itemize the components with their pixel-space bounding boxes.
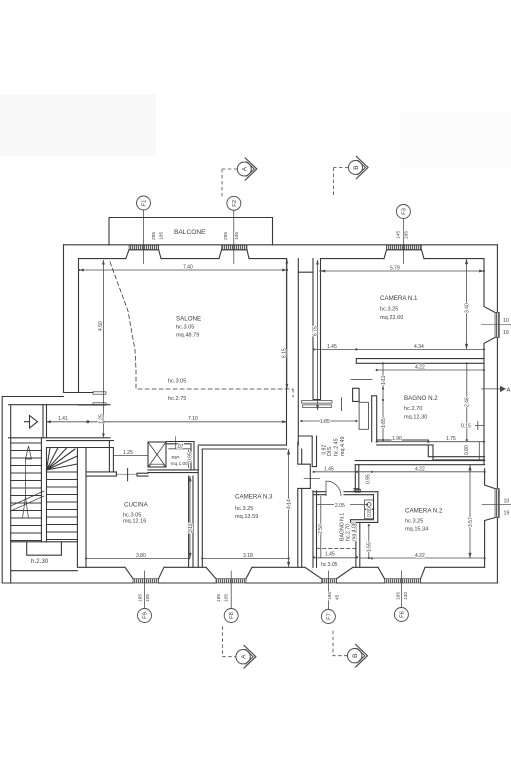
wall bottom exterior outer line segments [2, 582, 497, 584]
svg-text:3.40: 3.40 [464, 303, 470, 313]
dim .07 line [168, 448, 191, 450]
svg-text:mq.13.59: mq.13.59 [235, 514, 258, 520]
dim 2.46 line [466, 363, 468, 440]
svg-text:105: 105 [234, 232, 240, 240]
dim 1.90+1.75 line [377, 441, 484, 443]
svg-text:0.80: 0.80 [464, 445, 470, 455]
window F2 hatch [222, 245, 248, 250]
svg-text:0.92: 0.92 [322, 445, 328, 455]
svg-text:hc.2.75: hc.2.75 [168, 396, 186, 402]
svg-text:0.80: 0.80 [367, 507, 373, 517]
window F6 stem [400, 571, 402, 607]
svg-text:BALCONE: BALCONE [174, 229, 206, 236]
wall left exterior [63, 245, 65, 393]
svg-text:45: 45 [335, 594, 341, 600]
svg-text:295: 295 [223, 232, 229, 240]
bagno N1 bidet fixture [365, 510, 374, 519]
window F6 reveals [378, 567, 425, 578]
section marker B bottom [333, 631, 367, 668]
window F9 stem [144, 571, 146, 608]
svg-text:195: 195 [138, 594, 144, 602]
dim 4.50 line [102, 260, 104, 438]
svg-text:mq.15.34: mq.15.34 [405, 527, 428, 533]
svg-text:10: 10 [503, 318, 509, 324]
bagno N1 dashed shower line [317, 548, 357, 550]
svg-text:1.85: 1.85 [320, 419, 330, 425]
entry wall jog [64, 393, 94, 406]
window F2 reveals [219, 250, 249, 259]
camera N3 top wall [198, 445, 286, 449]
dim 1.45+4.34 line [314, 348, 484, 350]
camera N2 top wall [355, 461, 484, 465]
wall top interior inner line segments [79, 258, 485, 260]
svg-text:4.50: 4.50 [98, 321, 104, 331]
camera N1 left wall [313, 259, 321, 400]
svg-text:F2: F2 [232, 200, 238, 207]
stair top wall [47, 441, 114, 448]
dim 5.79 line [321, 270, 485, 272]
corridor wall right of stair [109, 441, 113, 472]
svg-text:4.34: 4.34 [414, 344, 424, 350]
shaft cap between walls [298, 271, 313, 273]
svg-text:hc.3.05: hc.3.05 [168, 378, 186, 384]
dim 0.80 line [478, 442, 480, 460]
svg-text:A: A [240, 654, 247, 659]
svg-text:F1: F1 [142, 200, 148, 207]
svg-text:CAMERA N.1: CAMERA N.1 [380, 295, 418, 302]
svg-text:F3: F3 [401, 208, 407, 215]
svg-text:F8: F8 [229, 612, 235, 619]
svg-text:195: 195 [396, 592, 402, 600]
dim 0.15 line [475, 421, 485, 430]
svg-text:F9: F9 [143, 612, 149, 619]
dim dots [86, 420, 89, 423]
entry direction triangle [25, 416, 38, 429]
svg-text:CUCINA: CUCINA [124, 502, 149, 509]
elevator door sill [150, 464, 164, 467]
svg-text:B: B [352, 653, 359, 658]
svg-text:CAMERA N.3: CAMERA N.3 [235, 493, 273, 500]
svg-text:1.85: 1.85 [381, 418, 387, 428]
dim 1.85 DIS line [302, 420, 357, 422]
stair up arrow 1 [26, 446, 32, 459]
circle F7 [321, 610, 335, 624]
svg-text:hc.3.25: hc.3.25 [380, 306, 398, 312]
svg-text:1.41: 1.41 [58, 416, 68, 422]
svg-text:130: 130 [403, 592, 409, 600]
window F1 hatch [129, 245, 159, 250]
svg-text:RIP.: RIP. [172, 455, 181, 461]
svg-text:mq.12.30: mq.12.30 [404, 414, 427, 420]
svg-text:2.50: 2.50 [318, 524, 324, 534]
elevator shaft [148, 442, 166, 467]
svg-text:195: 195 [327, 592, 333, 600]
stair block outer boundary [2, 397, 63, 584]
wall left interior [78, 259, 80, 393]
svg-text:mq.48.79: mq.48.79 [176, 333, 199, 339]
window right of camera N1 hatch [495, 312, 499, 337]
window F2 stem [233, 210, 235, 264]
bagno N1 wc fixture [365, 500, 374, 509]
svg-text:10: 10 [504, 499, 510, 505]
window F7 stem [327, 571, 329, 609]
svg-text:1.45: 1.45 [327, 344, 337, 350]
dim 4.22 bagno2 line [377, 369, 484, 371]
svg-text:6.75: 6.75 [313, 326, 319, 336]
dim 3.80 line [86, 557, 189, 559]
window F7 reveals [305, 567, 353, 578]
dim 7.40 line [79, 269, 287, 271]
svg-text:mq.12.16: mq.12.16 [123, 519, 146, 525]
svg-text:1.25: 1.25 [123, 450, 133, 456]
landing top wall [9, 404, 110, 406]
svg-text:3.57: 3.57 [468, 517, 474, 527]
corridor east wall by camera N2 door [354, 465, 359, 491]
svg-text:145: 145 [396, 231, 402, 239]
kitchen right wall [189, 476, 193, 567]
section marker A top [222, 158, 257, 199]
svg-text:hc.3.05: hc.3.05 [176, 325, 194, 331]
landing bottom line [9, 437, 110, 439]
window F3 hatch [387, 245, 422, 250]
circle F9 [138, 609, 152, 623]
dim .07 stem [175, 437, 177, 449]
section arrow A right side [481, 386, 510, 394]
kitchen door tick and threshold [127, 469, 129, 481]
dim 4.22 camera N2 bottom line [360, 557, 485, 559]
svg-text:0.95: 0.95 [187, 452, 193, 462]
svg-text:mq.22.60: mq.22.60 [380, 315, 403, 321]
svg-text:195: 195 [404, 231, 410, 239]
window F7 hatch [322, 579, 337, 583]
svg-text:105: 105 [159, 232, 165, 240]
fixture niche walls [351, 492, 378, 523]
stair bottom landing lines [11, 542, 78, 555]
sliding door threshold bars salone-DIS [302, 401, 333, 404]
window F8 hatch [216, 579, 246, 583]
svg-text:hc.3.05: hc.3.05 [321, 562, 338, 568]
stair up arrow 2 [23, 459, 29, 518]
stair winder treads [47, 448, 78, 471]
svg-text:1.25: 1.25 [98, 414, 104, 424]
svg-text:h.2.30: h.2.30 [31, 558, 49, 565]
bagno N1 door leaf [326, 481, 341, 496]
svg-text:295: 295 [151, 232, 157, 240]
svg-text:0.15: 0.15 [461, 423, 471, 429]
window F8 reveals [206, 567, 252, 578]
camera N3 door swing line [304, 477, 320, 479]
svg-text:19: 19 [504, 511, 510, 517]
svg-text:mq.4.49: mq.4.49 [340, 437, 346, 456]
svg-text:DIS.: DIS. [327, 446, 333, 456]
svg-text:BAGNO N.2: BAGNO N.2 [404, 395, 438, 402]
camera N3 right wall [298, 442, 311, 567]
svg-text:SALONE: SALONE [176, 316, 201, 323]
svg-text:4.14: 4.14 [287, 499, 293, 509]
svg-text:F7: F7 [326, 613, 332, 620]
camera N3 left wall [198, 446, 202, 567]
DIS east jog wall [353, 388, 360, 401]
kitchen top wall [86, 472, 148, 476]
svg-text:mq.4.08: mq.4.08 [352, 522, 358, 541]
dim 0.95 rip line [188, 450, 190, 468]
svg-text:CAMERA N.2: CAMERA N.2 [405, 507, 443, 514]
dim 3.40 line [466, 259, 468, 350]
balcony outline [109, 218, 273, 246]
svg-text:A: A [507, 387, 511, 393]
landing divider wall [43, 405, 47, 438]
svg-text:0.95: 0.95 [365, 474, 371, 484]
svg-text:F6: F6 [399, 611, 405, 618]
salone right wall [287, 259, 299, 446]
bagno N2 bottom wall step [377, 440, 485, 460]
stair left flight treads [11, 443, 42, 541]
svg-text:5.79: 5.79 [390, 266, 400, 272]
window right of camera N2 hatch [495, 489, 499, 518]
svg-text:1.11: 1.11 [381, 375, 387, 385]
window F6 hatch [385, 579, 421, 583]
bagno N1 top wall [313, 492, 378, 495]
svg-text:hc.3.25: hc.3.25 [405, 518, 423, 524]
dashed ceiling-height boundary in salone [110, 262, 293, 397]
svg-text:3.18: 3.18 [243, 553, 253, 559]
closet RIP walls [148, 442, 198, 473]
circle F1 [137, 196, 151, 210]
dim 6.75 line [317, 260, 319, 410]
svg-text:.07: .07 [177, 444, 184, 450]
svg-text:2.05: 2.05 [335, 503, 345, 509]
svg-text:hc.3.25: hc.3.25 [235, 506, 253, 512]
dim 6.15 line [286, 259, 288, 389]
svg-text:4.22: 4.22 [415, 553, 425, 559]
faint scan shadow left [0, 94, 156, 156]
faint scan shadow right [400, 112, 511, 168]
dim 3.16 line [189, 476, 191, 558]
dim corridor y472 line [314, 471, 485, 473]
svg-text:3.80: 3.80 [136, 553, 146, 559]
svg-text:hc.2.45: hc.2.45 [334, 438, 340, 456]
svg-text:105: 105 [145, 594, 151, 602]
kitchen left wall (shared with stair) [77, 448, 86, 568]
svg-text:105: 105 [224, 594, 230, 602]
dim 1.45 bagno N1 bottom line [314, 557, 358, 559]
svg-text:mq.1.00: mq.1.00 [171, 461, 189, 467]
svg-text:19: 19 [503, 330, 509, 336]
svg-text:195: 195 [216, 594, 222, 602]
elevator X [148, 442, 166, 467]
window F1 stem [143, 210, 145, 264]
svg-text:7.40: 7.40 [183, 265, 193, 271]
svg-text:2.46: 2.46 [465, 397, 471, 407]
wall top exterior outer line [64, 244, 498, 246]
right wall label lines [481, 324, 511, 504]
camera N1 door leaf [341, 398, 343, 411]
svg-text:1.55: 1.55 [366, 542, 372, 552]
circle F3 [396, 205, 410, 219]
svg-text:A: A [242, 166, 249, 171]
bagno N2 left wall [372, 396, 377, 442]
dim 1.41+7.10 line [46, 421, 287, 423]
svg-text:7.10: 7.10 [188, 416, 198, 422]
dim 3.57 line [469, 465, 471, 558]
dim 3.18 line [202, 557, 288, 559]
entry door threshold bars [93, 392, 106, 394]
svg-text:4.22: 4.22 [415, 365, 425, 371]
svg-text:B: B [353, 165, 360, 170]
dim 1.11+1.85 line [382, 363, 384, 440]
wall camera N1 / bagno N2 [356, 359, 484, 364]
stair enclosure [11, 406, 78, 571]
section marker B top [334, 156, 369, 196]
svg-text:1.45: 1.45 [325, 552, 335, 558]
svg-text:3.16: 3.16 [188, 523, 194, 533]
window F9 hatch [133, 579, 159, 583]
svg-text:1.75: 1.75 [446, 436, 456, 442]
stair mid wall [41, 438, 46, 542]
wall right exterior [496, 245, 498, 583]
bagno N1 left wall [313, 491, 317, 568]
svg-text:1.90: 1.90 [392, 436, 402, 442]
DIS strip wall stubs [298, 436, 316, 467]
camera N1 door swing chord [351, 379, 372, 381]
dim 2.50 line [320, 496, 322, 559]
door jamb notch [355, 489, 360, 492]
bagno N2 door leaf [359, 402, 368, 429]
svg-text:6.15: 6.15 [282, 348, 288, 358]
dim 1.55 line [368, 525, 370, 558]
window F1 reveals [126, 250, 161, 259]
section marker A bottom [223, 626, 256, 668]
circle F2 [227, 196, 241, 210]
wall bottom interior inner line segments [79, 566, 485, 568]
stair right flight treads [47, 472, 78, 540]
circle F6 [394, 608, 408, 622]
svg-text:1.45: 1.45 [324, 466, 334, 472]
window F3 reveals [384, 250, 424, 259]
dim 4.14 line [288, 449, 290, 567]
window F9 reveals [125, 567, 164, 578]
stair break line [11, 491, 44, 511]
wall right interior with window recesses [484, 259, 495, 465]
dim arrowheads [79, 269, 84, 272]
dim 2.05 bagno line [317, 504, 368, 506]
svg-text:4.22: 4.22 [415, 466, 425, 472]
window F8 stem [230, 571, 232, 608]
stair bottom outer band [10, 571, 12, 583]
dim 1.25 kitchen line [113, 455, 148, 457]
svg-text:hc.2.70: hc.2.70 [404, 406, 422, 412]
window F3 stem [402, 219, 404, 264]
circle F8 [224, 609, 238, 623]
camera N2 left wall lower [356, 522, 360, 567]
